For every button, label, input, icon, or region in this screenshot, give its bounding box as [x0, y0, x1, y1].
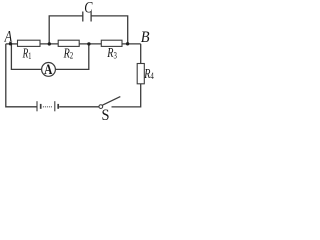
svg-text:C: C: [84, 0, 92, 16]
svg-text:S: S: [102, 106, 110, 122]
svg-text:A: A: [4, 28, 13, 45]
svg-text:A: A: [44, 62, 52, 78]
svg-text:B: B: [141, 29, 150, 46]
